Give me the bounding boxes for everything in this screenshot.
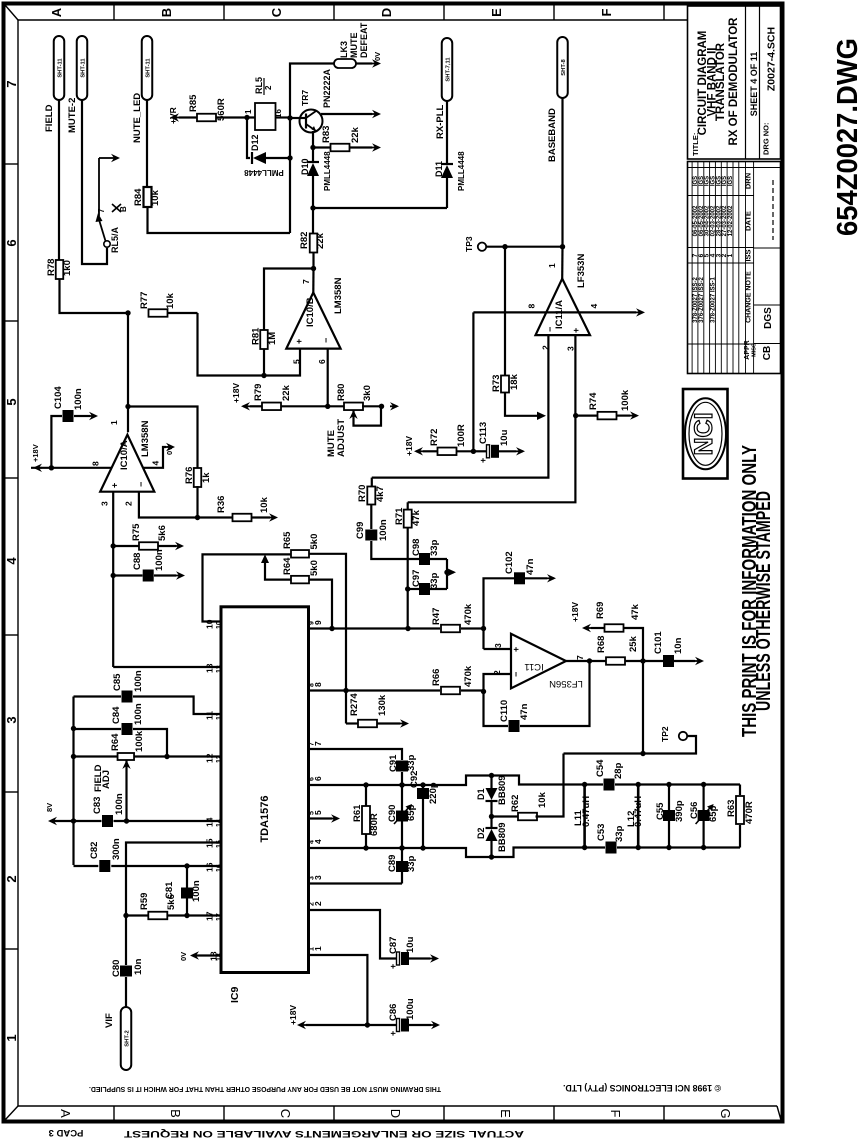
svg-text:C99: C99 — [355, 522, 366, 539]
svg-text:C: C — [269, 7, 284, 17]
IC9 pin 7 loop — [309, 741, 403, 760]
diode D1 BB809 — [476, 775, 508, 819]
wire FIELD to R78 — [58, 100, 60, 261]
capacitor C110 47n feedback — [484, 661, 590, 732]
svg-text:LM358N: LM358N — [140, 420, 151, 457]
resistor R77 10k — [125, 292, 197, 317]
supply +18V rail — [288, 1005, 397, 1030]
svg-text:3: 3 — [100, 501, 110, 506]
svg-text:33p: 33p — [406, 754, 417, 771]
resistor R78 1k0 — [46, 259, 73, 279]
svg-text:+: + — [571, 328, 581, 333]
relay coil RL5 — [244, 77, 283, 130]
title block — [688, 6, 781, 159]
wire TR7 emitter — [310, 131, 315, 150]
svg-text:D: D — [379, 8, 394, 17]
svg-text:18k: 18k — [509, 373, 520, 390]
svg-text:IC10/A: IC10/A — [119, 440, 130, 470]
svg-text:12-02-2002: 12-02-2002 — [728, 205, 734, 236]
svg-text:C86: C86 — [388, 1004, 399, 1021]
svg-text:22k: 22k — [350, 126, 361, 143]
svg-text:5k6: 5k6 — [157, 525, 168, 541]
svg-text:+: + — [388, 1031, 398, 1036]
svg-text:680R: 680R — [369, 813, 380, 836]
svg-text:2: 2 — [264, 85, 273, 90]
svg-text:SHEET 4 OF 11: SHEET 4 OF 11 — [749, 52, 759, 117]
svg-text:DEFEAT: DEFEAT — [359, 22, 369, 58]
revision table — [688, 162, 781, 374]
svg-text:7: 7 — [575, 655, 585, 660]
svg-text:IGS: IGS — [728, 176, 734, 186]
wire coil to node — [276, 116, 291, 118]
svg-text:PMLL4448: PMLL4448 — [323, 151, 332, 191]
svg-text:RX-PLL: RX-PLL — [435, 105, 446, 140]
svg-text:B: B — [119, 206, 128, 212]
svg-text:C97: C97 — [411, 570, 422, 587]
resistor R71 47k — [394, 502, 422, 628]
svg-text:PN2222A: PN2222A — [322, 68, 332, 108]
svg-text:−: − — [321, 338, 331, 343]
svg-text:C82: C82 — [89, 842, 100, 859]
svg-text:6: 6 — [4, 239, 19, 246]
svg-text:C88: C88 — [132, 553, 143, 570]
svg-text:C101: C101 — [653, 631, 664, 654]
svg-text:4: 4 — [589, 304, 599, 309]
resistor R85 560R — [188, 94, 227, 121]
svg-text:G: G — [718, 1108, 733, 1118]
svg-text:MISC: MISC — [752, 343, 758, 357]
svg-text:4: 4 — [309, 840, 316, 844]
capacitor C92 220p — [409, 771, 439, 848]
svg-text:R85: R85 — [188, 94, 199, 112]
svg-text:3: 3 — [566, 346, 576, 351]
svg-text:C54: C54 — [595, 759, 606, 777]
svg-text:13: 13 — [216, 665, 223, 673]
resistor R81 1M feedback — [251, 269, 314, 379]
svg-text:R74: R74 — [588, 392, 599, 410]
svg-text:0V: 0V — [373, 52, 382, 61]
svg-text:8: 8 — [91, 461, 101, 466]
capacitor C84 100n — [74, 703, 168, 756]
svg-text:10u: 10u — [499, 429, 510, 446]
resistor R47 470k — [431, 603, 486, 632]
svg-text:C113: C113 — [478, 422, 489, 444]
svg-text:TRANSLATOR: TRANSLATOR — [715, 42, 727, 121]
IC9 pin 8 wire — [309, 682, 441, 691]
IC9 pin 1 wire — [309, 946, 371, 1028]
wire BASEBAND to pin1 — [560, 98, 565, 249]
wire pin6 to mute-adjust line — [325, 349, 330, 409]
svg-text:ACTUAL SIZE OR ENLARGEMENTS AV: ACTUAL SIZE OR ENLARGEMENTS AVAILABLE ON… — [123, 1129, 524, 1139]
svg-text:R64: R64 — [110, 733, 121, 751]
svg-text:SHT-8: SHT-8 — [561, 59, 567, 76]
resistor R65 5k0 — [282, 531, 320, 558]
stamp text THIS PRINT — [739, 445, 775, 737]
wire IC11 pin3 — [484, 648, 512, 650]
svg-text:654Z0027.DWG: 654Z0027.DWG — [832, 38, 858, 236]
svg-text:0V: 0V — [179, 952, 188, 961]
capacitor C99 100n — [355, 505, 419, 560]
svg-text:C84: C84 — [111, 706, 122, 724]
svg-text:R59: R59 — [139, 893, 150, 910]
wire IC10/A pin3 column — [111, 492, 116, 667]
svg-text:E: E — [489, 8, 504, 17]
svg-text:PMLL4448: PMLL4448 — [244, 168, 284, 177]
svg-text:8: 8 — [527, 304, 537, 309]
svg-text:LM358N: LM358N — [333, 277, 344, 314]
svg-text:+18V: +18V — [404, 436, 414, 456]
svg-text:IC10/B: IC10/B — [305, 297, 316, 327]
svg-text:3: 3 — [309, 876, 316, 880]
svg-text:130k: 130k — [377, 694, 388, 716]
svg-text:E: E — [498, 1109, 513, 1118]
svg-text:7: 7 — [97, 208, 106, 213]
svg-text:47n: 47n — [525, 558, 536, 575]
resistor R69 47k — [570, 602, 643, 661]
svg-text:100n: 100n — [154, 549, 165, 571]
resistor R68 25k — [596, 635, 646, 664]
capacitor C82 300n — [74, 838, 123, 872]
svg-text:F: F — [599, 8, 614, 16]
inductor L12 0.47uH — [626, 785, 644, 848]
svg-text:UNLESS OTHERWISE STAMPED: UNLESS OTHERWISE STAMPED — [753, 491, 775, 711]
svg-text:1: 1 — [244, 109, 253, 114]
svg-text:R61: R61 — [352, 804, 363, 822]
svg-text:RL5/A: RL5/A — [110, 226, 120, 253]
svg-text:10k: 10k — [165, 292, 176, 309]
capacitor C91 33p — [388, 754, 417, 884]
svg-text:MUTE: MUTE — [349, 33, 359, 59]
svg-text:B: B — [168, 1109, 183, 1118]
svg-text:C90: C90 — [387, 805, 398, 822]
svg-text:TP3: TP3 — [464, 236, 474, 252]
diode D10 PMLL4448 — [300, 148, 332, 209]
svg-text:5k0: 5k0 — [309, 560, 320, 576]
capacitor C87 10u — [388, 936, 439, 969]
capacitor C53 33p series — [596, 824, 625, 854]
svg-text:470k: 470k — [463, 665, 474, 687]
svg-text:R69: R69 — [595, 602, 606, 619]
resistor R79 22k — [253, 384, 328, 410]
resistor R82 22k — [299, 208, 326, 271]
svg-text:PMLL4448: PMLL4448 — [457, 151, 466, 191]
svg-text:12: 12 — [216, 755, 223, 763]
svg-text:R78: R78 — [46, 259, 57, 276]
svg-text:11: 11 — [205, 711, 215, 720]
connector tag NUTE_LED SHT-11 — [132, 36, 152, 143]
left numbers — [4, 80, 19, 1041]
svg-text:470R: 470R — [744, 801, 755, 824]
wire IC10/A pin4 to 0V — [143, 443, 175, 468]
op-amp IC10/A LM358N — [91, 420, 161, 506]
svg-text:10k: 10k — [259, 496, 270, 513]
svg-text:R70: R70 — [357, 485, 368, 502]
test point TP3 — [464, 236, 486, 252]
svg-text:B: B — [159, 8, 174, 17]
svg-text:DRN: DRN — [744, 173, 753, 189]
wire bottom rail right — [617, 845, 740, 850]
svg-text:C56: C56 — [689, 802, 700, 819]
svg-text:7: 7 — [4, 80, 19, 87]
svg-text:10k: 10k — [150, 189, 161, 206]
capacitor C86 100u — [388, 998, 440, 1036]
wire IC10/B pin7 — [312, 269, 314, 293]
IC9 pin 17 wire — [168, 911, 223, 921]
resistor R36 10k — [216, 496, 278, 522]
svg-text:100k: 100k — [620, 389, 631, 411]
svg-text:DATE: DATE — [744, 211, 753, 231]
wire R65 right to pin8 node — [309, 554, 349, 724]
wire IC11 pin2 — [484, 674, 512, 692]
svg-text:R73: R73 — [491, 375, 502, 392]
svg-text:A: A — [58, 1109, 73, 1118]
test point TP2 — [660, 726, 687, 742]
wire TP3 to output — [486, 244, 562, 249]
diode D2 BB809 — [476, 817, 508, 858]
wire R78 to node A — [60, 279, 129, 313]
bottom letters — [58, 1108, 733, 1118]
capacitor C55 390p — [655, 785, 685, 848]
svg-text:376-Z0027 ISS-2: 376-Z0027 ISS-2 — [699, 276, 705, 322]
svg-text:47k: 47k — [630, 603, 641, 620]
svg-text:R83: R83 — [321, 126, 332, 143]
svg-text:33p: 33p — [614, 825, 625, 842]
svg-text:13: 13 — [205, 663, 215, 673]
resistor R70 4k7 — [357, 478, 386, 505]
svg-text:R80: R80 — [336, 384, 347, 401]
IC IC9 TDA1576 body — [221, 607, 309, 1003]
trimmer capacitor C90 65p — [387, 804, 417, 824]
svg-text:DRG NO:: DRG NO: — [762, 123, 771, 156]
svg-text:6: 6 — [309, 777, 316, 781]
resistor R83 22k — [313, 126, 381, 152]
svg-text:+: + — [388, 964, 398, 969]
resistor R59 5k6 — [123, 893, 177, 920]
wire MUTE-2 to contact — [82, 100, 107, 264]
svg-text:+18V: +18V — [231, 383, 241, 403]
svg-text:10n: 10n — [133, 958, 144, 975]
svg-text:FIELD: FIELD — [44, 104, 55, 132]
svg-text:SHT-11: SHT-11 — [145, 58, 151, 78]
svg-text:8V: 8V — [45, 803, 54, 812]
svg-text:22k: 22k — [315, 232, 326, 249]
svg-text:TR7: TR7 — [300, 90, 310, 106]
svg-text:R72: R72 — [429, 429, 440, 446]
svg-text:+: + — [294, 339, 304, 344]
svg-text:1: 1 — [4, 1034, 19, 1041]
svg-text:14: 14 — [216, 819, 223, 827]
relay contact RL5/A — [96, 158, 129, 253]
wire output to TP2 net — [564, 736, 697, 756]
resistor R72 100R — [404, 424, 473, 456]
svg-text:10: 10 — [205, 619, 215, 629]
diode D12 PMLL4448 — [244, 118, 290, 178]
svg-text:5: 5 — [309, 811, 316, 815]
svg-text:LF356N: LF356N — [549, 678, 583, 689]
connector tag RX-PLL SHT-7,11 — [435, 38, 452, 139]
svg-text:+18V: +18V — [288, 1005, 298, 1025]
svg-text:+: + — [511, 647, 521, 652]
logo NCI — [683, 389, 728, 479]
diode D11 PMLL4448 — [434, 101, 466, 208]
connector tag MUTE-2 SHT-11 — [67, 36, 87, 133]
svg-text:CB: CB — [762, 346, 773, 360]
svg-text:1k: 1k — [201, 472, 212, 483]
svg-text:D1: D1 — [476, 788, 486, 800]
IC9 pin 13 wire — [113, 663, 223, 673]
svg-text:F: F — [608, 1110, 623, 1118]
svg-text:+: + — [110, 483, 120, 488]
capacitor C85 100n — [71, 670, 144, 731]
svg-text:220p: 220p — [428, 782, 439, 804]
capacitor C83 100n — [45, 793, 125, 827]
svg-text:7: 7 — [301, 279, 311, 284]
op-amp IC10/B LM358N — [286, 277, 344, 364]
svg-text:10: 10 — [216, 621, 223, 629]
svg-text:IC9: IC9 — [229, 987, 241, 1004]
resistor R63 470R — [726, 785, 755, 848]
svg-text:100n: 100n — [133, 703, 144, 725]
inductor L11 0.47uH — [573, 782, 592, 850]
resistor R73 18k feedback — [491, 247, 546, 420]
svg-text:IC11/A: IC11/A — [554, 300, 565, 329]
svg-text:1: 1 — [309, 947, 316, 951]
svg-text:2: 2 — [309, 902, 316, 906]
wire IC10/A pin2 net — [139, 492, 233, 518]
svg-text:11: 11 — [216, 712, 223, 720]
IC9 pin 16 wire — [111, 862, 223, 872]
arrow 0V mute — [390, 402, 399, 410]
capacitor C98 33p — [411, 539, 447, 565]
svg-text:65p: 65p — [708, 805, 719, 822]
svg-text:SHT-11: SHT-11 — [57, 58, 63, 78]
wire IC10/A output node — [109, 313, 131, 432]
resistor R64 5k0 — [282, 557, 320, 583]
capacitor C88 100n — [113, 549, 185, 581]
capacitor C89 33p — [387, 855, 417, 872]
svg-text:R68: R68 — [596, 636, 607, 653]
resistor R61 680R — [352, 782, 380, 850]
svg-text:33p: 33p — [429, 539, 440, 556]
capacitor C101 10n — [643, 631, 704, 667]
svg-text:LK3: LK3 — [339, 41, 349, 58]
potentiometer R80 3k0 — [328, 384, 384, 426]
svg-text:300n: 300n — [111, 838, 122, 860]
IC9 pin 12 wire — [164, 753, 223, 763]
top letters — [49, 7, 614, 17]
wire mute net — [310, 205, 447, 210]
op-amp IC11 LF356N — [492, 634, 585, 689]
svg-text:0.47uH: 0.47uH — [633, 796, 644, 827]
potentiometer R64 100k FIELD ADJ — [71, 730, 167, 824]
svg-text:BB809: BB809 — [497, 822, 508, 852]
svg-text:100n: 100n — [191, 880, 202, 902]
svg-text:+18V: +18V — [570, 602, 580, 622]
IC9 pin 4 rail — [309, 839, 606, 860]
resistor R75 5k6 — [113, 523, 184, 550]
svg-text:100k: 100k — [134, 730, 145, 752]
svg-text:65p: 65p — [406, 804, 417, 821]
svg-text:3: 3 — [4, 716, 19, 723]
wire IC10/A pin8 rail — [31, 444, 112, 472]
wire R64 right to pin9 node — [309, 580, 335, 632]
wire IC11 output — [566, 658, 606, 663]
svg-text:D11: D11 — [434, 161, 444, 177]
svg-text:16: 16 — [205, 862, 215, 872]
svg-text:10u: 10u — [405, 936, 416, 953]
svg-text:100u: 100u — [405, 998, 416, 1020]
wire NUTE_LED to R84 — [146, 100, 148, 187]
svg-text:R79: R79 — [253, 384, 264, 401]
svg-text:SHT-7,11: SHT-7,11 — [445, 57, 451, 82]
svg-text:10k: 10k — [537, 791, 548, 808]
svg-text:28p: 28p — [613, 762, 624, 779]
wire output down to TP2 net — [642, 661, 644, 754]
svg-text:R82: R82 — [299, 232, 310, 249]
connector tag VIF SHT-2 — [104, 1007, 131, 1070]
svg-text:C87: C87 — [388, 937, 399, 954]
wire IC11/A pin1 — [561, 247, 563, 279]
svg-text:ADJUST: ADJUST — [336, 419, 347, 457]
resistor R66 470k — [431, 665, 486, 694]
svg-text:25k: 25k — [628, 635, 639, 652]
svg-text:1: 1 — [727, 253, 734, 257]
op-amp IC11/A LF353N — [527, 254, 600, 351]
svg-text:4: 4 — [151, 461, 161, 466]
resistor R274 130k — [346, 693, 409, 728]
wire feedback to R76 — [128, 407, 198, 470]
svg-text:2: 2 — [4, 875, 19, 882]
svg-text:R71: R71 — [394, 507, 405, 525]
svg-text:+: + — [478, 458, 488, 463]
svg-text:8: 8 — [309, 683, 316, 687]
svg-text:MUTE-2: MUTE-2 — [67, 98, 78, 133]
svg-text:1: 1 — [547, 263, 557, 268]
supply rail 8V column — [71, 697, 76, 866]
svg-text:15: 15 — [216, 840, 223, 848]
svg-text:12: 12 — [205, 753, 215, 763]
svg-text:R47: R47 — [431, 608, 442, 625]
wire R84 down and right — [148, 207, 291, 233]
svg-text:R84: R84 — [133, 188, 144, 206]
svg-text:R36: R36 — [216, 496, 227, 513]
IC9 pin 10 loop to R65 — [203, 554, 292, 629]
transistor TR7 PN2222A — [300, 68, 333, 132]
connector tag BASEBAND SHT-8 — [547, 37, 568, 162]
svg-text:33p: 33p — [406, 855, 417, 872]
svg-text:9: 9 — [309, 621, 316, 625]
svg-text:R77: R77 — [139, 292, 150, 309]
wire R85 to RL5 coil — [216, 115, 255, 120]
svg-text:R64: R64 — [282, 557, 293, 575]
svg-text:C53: C53 — [596, 824, 607, 841]
svg-text:D10: D10 — [300, 158, 310, 175]
wire pin3 node riser — [484, 578, 515, 649]
svg-text:4: 4 — [4, 557, 19, 565]
copyright line — [89, 1083, 721, 1094]
svg-text:3: 3 — [493, 643, 503, 648]
svg-text:2: 2 — [124, 501, 134, 506]
svg-text:LF353N: LF353N — [576, 254, 587, 288]
svg-text:C104: C104 — [53, 386, 64, 409]
svg-text:100n: 100n — [73, 388, 84, 410]
svg-text:18: 18 — [216, 953, 223, 961]
wire LK3 to 0V — [356, 52, 382, 68]
wire TR7 base — [290, 117, 306, 119]
svg-text:100R: 100R — [456, 424, 467, 447]
svg-text:0V: 0V — [165, 446, 174, 455]
svg-text:D12: D12 — [250, 134, 260, 151]
